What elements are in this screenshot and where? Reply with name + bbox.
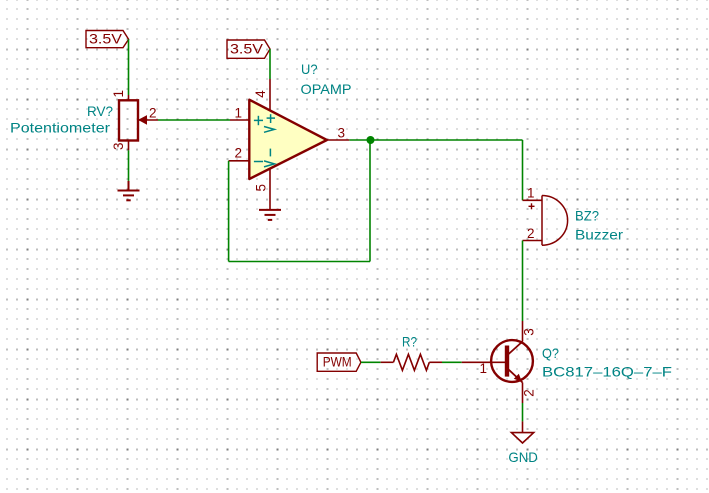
svg-text:2: 2 <box>149 106 157 121</box>
svg-text:3.5V: 3.5V <box>230 41 264 57</box>
transistor Q? BC817 <box>462 321 533 403</box>
pin 1 lead <box>230 119 249 121</box>
op-amp triangle body <box>249 100 327 179</box>
wire feedback up to pin2 <box>228 161 230 262</box>
svg-text:3.5V: 3.5V <box>89 31 123 47</box>
power symbol GND <box>511 421 533 443</box>
svg-text:1: 1 <box>527 186 535 201</box>
wire 3.5V to potentiometer pin1 <box>128 39 130 95</box>
wire emitter to GND <box>522 403 524 421</box>
base bar <box>505 346 509 377</box>
svg-text:PWM: PWM <box>323 354 352 370</box>
emitter pin lead <box>522 383 524 404</box>
svg-text:1: 1 <box>480 361 488 376</box>
wire pot wiper to op-amp pin1 <box>158 119 230 121</box>
wire output to buzzer pin1 <box>522 140 524 200</box>
svg-text:U?: U? <box>301 61 318 77</box>
V- marker <box>264 149 274 167</box>
op-amp U1 <box>229 79 350 210</box>
wire 3.5V to op-amp pin4 <box>269 49 271 79</box>
svg-text:RV?: RV? <box>87 103 113 119</box>
V+ marker <box>264 114 275 132</box>
ground (earth) under op-amp pin5 <box>259 210 281 220</box>
wire buzzer pin2 to transistor collector <box>522 241 524 322</box>
pin 3 lead <box>327 139 349 141</box>
svg-text:3: 3 <box>338 126 346 141</box>
buzzer BZ? <box>523 196 568 246</box>
collector pin lead <box>522 321 524 342</box>
svg-text:2: 2 <box>235 146 243 161</box>
svg-text:3: 3 <box>521 328 536 336</box>
svg-text:2: 2 <box>521 389 536 397</box>
global label PWM <box>317 353 361 371</box>
minus marker (input -) <box>254 161 263 163</box>
svg-text:1: 1 <box>111 90 126 98</box>
svg-text:R?: R? <box>402 334 417 350</box>
svg-text:OPAMP: OPAMP <box>301 81 352 97</box>
svg-text:Q?: Q? <box>542 345 559 361</box>
potentiometer RV? <box>119 95 158 150</box>
resistor R? <box>381 354 442 370</box>
emitter diagonal with arrow <box>508 369 523 383</box>
ground (earth) under potentiometer <box>118 181 140 200</box>
transistor body circle <box>491 340 533 382</box>
wire feedback bottom <box>229 261 370 263</box>
svg-text:GND: GND <box>508 449 538 465</box>
wire op-amp output to right <box>349 139 522 141</box>
pin 2 lead <box>229 160 250 162</box>
power flag 3.5V (left, feeds potentiometer) <box>86 31 129 48</box>
svg-text:1: 1 <box>235 106 243 121</box>
svg-text:2: 2 <box>527 226 535 241</box>
wire PWM to resistor <box>361 361 381 363</box>
plus polarity mark <box>529 203 535 209</box>
pin 5 lead <box>269 169 271 210</box>
wire resistor to transistor base <box>442 361 462 363</box>
svg-text:BC817–16Q–7–F: BC817–16Q–7–F <box>542 363 672 379</box>
svg-text:Potentiometer: Potentiometer <box>10 120 110 136</box>
wire feedback down <box>369 140 371 262</box>
wire pot pin3 to ground <box>128 150 130 181</box>
pin 4 lead <box>269 79 271 111</box>
collector diagonal <box>508 342 523 356</box>
svg-text:4: 4 <box>253 90 268 98</box>
svg-text:3: 3 <box>111 142 126 150</box>
svg-text:BZ?: BZ? <box>575 208 599 224</box>
plus marker (input +) <box>254 116 263 125</box>
svg-text:5: 5 <box>254 184 269 192</box>
power flag 3.5V (feeds op-amp V+) <box>227 40 270 58</box>
svg-text:Buzzer: Buzzer <box>575 227 623 243</box>
junction at op-amp output <box>367 136 375 144</box>
base pin lead <box>462 361 505 363</box>
